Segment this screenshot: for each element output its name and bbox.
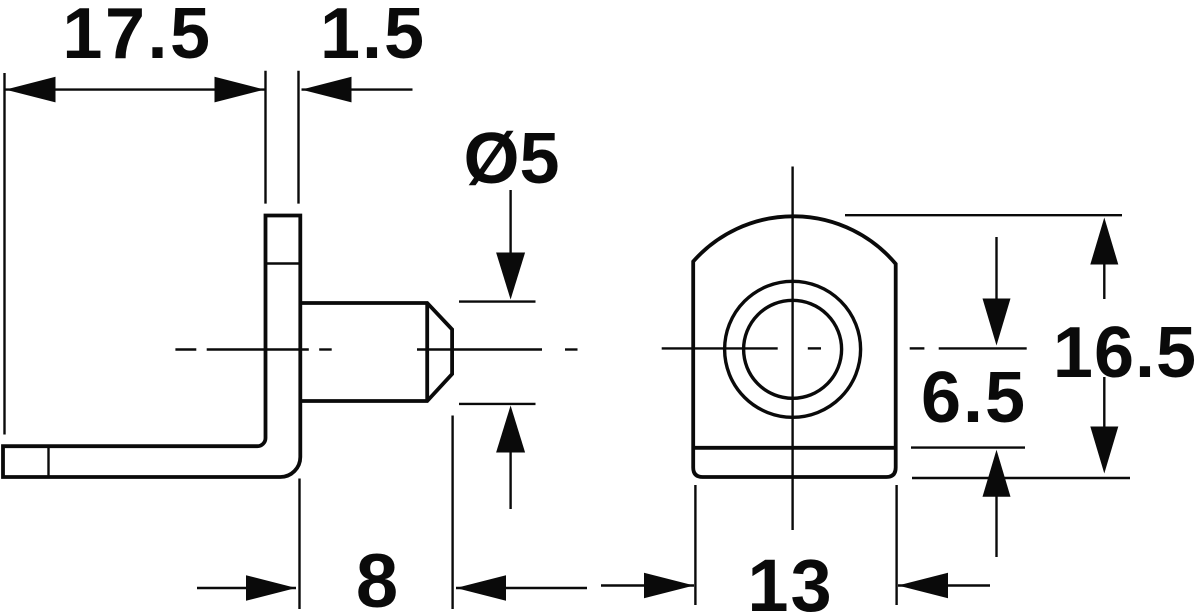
dimension 8 arrow left	[197, 587, 296, 589]
inner circle	[744, 300, 842, 398]
dimension 13 extension line left	[694, 485, 696, 605]
dimension 1.5 arrow	[302, 77, 352, 103]
dimension 13 arrow right	[898, 584, 990, 586]
diameter 5 upper extension line	[459, 300, 536, 302]
dimension 16.5 extension line bottom	[912, 477, 1130, 479]
front view horizontal centerline	[662, 347, 1027, 349]
dimension 6.5 extension line	[911, 446, 1025, 448]
front view vertical centerline	[791, 167, 793, 531]
dimension 6.5 lower arrow	[995, 495, 997, 557]
dimension 17.5 extension line left	[3, 73, 5, 435]
dimension 17.5 line	[6, 88, 265, 90]
pin chamfer edge	[425, 303, 429, 401]
diameter 5 lower arrow	[509, 448, 511, 509]
bend mark vertical plate	[266, 262, 301, 264]
dimension 16.5 arrow down	[1103, 377, 1105, 430]
dimension 1.5 extension line	[297, 71, 299, 204]
svg-text:1.5: 1.5	[320, 0, 426, 74]
diameter 5 lower extension line	[459, 403, 536, 405]
svg-text:17.5: 17.5	[62, 0, 212, 74]
diameter 5 upper arrow	[509, 190, 511, 256]
dimension 16.5 arrow up	[1103, 262, 1105, 299]
side view centerline	[175, 348, 577, 350]
bend mark bottom plate	[47, 446, 49, 477]
svg-text:6.5: 6.5	[921, 358, 1027, 438]
front view bottom inner line	[693, 446, 896, 450]
dimension 16.5 extension line top	[845, 214, 1122, 216]
dimension 13 arrow left	[601, 584, 694, 586]
dimension 17.5 extension line right	[264, 71, 266, 204]
front view body	[693, 216, 896, 477]
dimension 8 extension line right	[451, 416, 453, 610]
svg-text:13: 13	[747, 544, 833, 612]
svg-text:16.5: 16.5	[1053, 313, 1197, 393]
dimension 17.5 arrow right	[215, 77, 265, 103]
dimension 1.5 line	[302, 88, 413, 90]
dimension 6.5 upper arrow	[995, 237, 997, 300]
dimension 17.5 arrow left	[6, 77, 56, 103]
outer circle	[725, 281, 861, 417]
dimension 8 extension line left	[298, 479, 300, 610]
dimension 8 arrow right	[456, 587, 587, 589]
svg-text:Ø5: Ø5	[463, 119, 559, 199]
bracket side view outline	[3, 216, 300, 478]
pin outline	[302, 303, 452, 401]
dimension 13 extension line right	[895, 485, 897, 605]
svg-text:8: 8	[356, 539, 398, 612]
